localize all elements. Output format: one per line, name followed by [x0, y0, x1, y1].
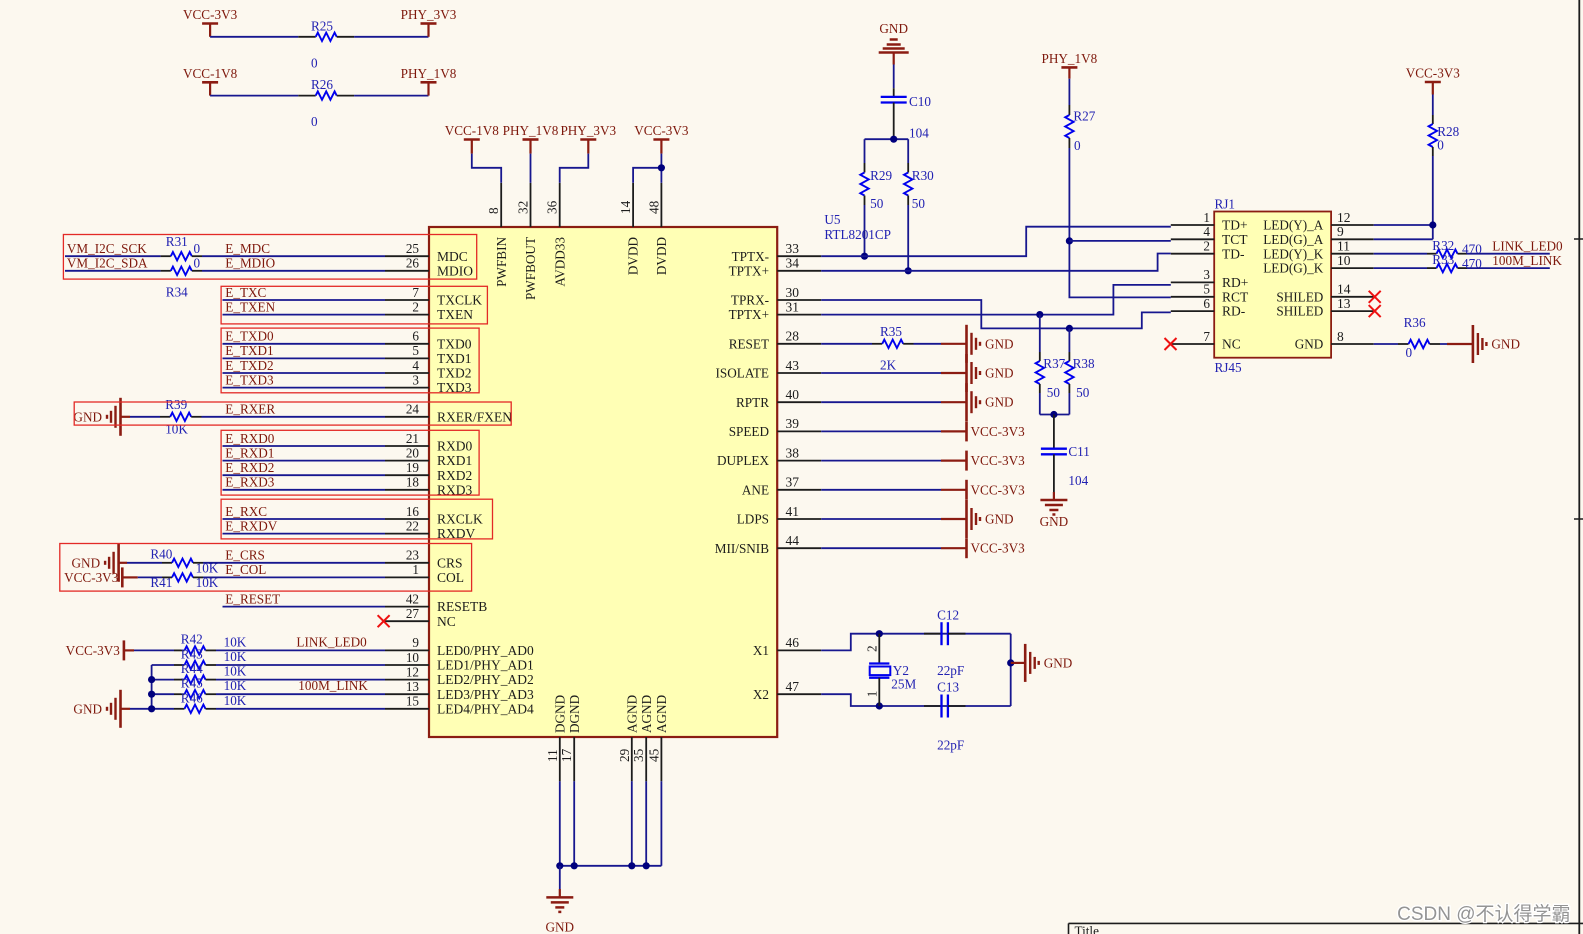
junction — [556, 862, 563, 869]
svg-text:R43: R43 — [181, 647, 203, 662]
net LINK_LED0 — [216, 649, 385, 651]
svg-text:24: 24 — [406, 402, 420, 417]
resistor R26 — [298, 95, 315, 97]
ground GND (CRS pulldown) — [119, 562, 127, 564]
svg-text:TD-: TD- — [1222, 246, 1245, 261]
wire — [1068, 79, 1070, 105]
svg-text:CSDN @不认得学霸: CSDN @不认得学霸 — [1397, 903, 1570, 925]
svg-text:34: 34 — [786, 256, 800, 271]
pin 11 DGND (bottom) — [559, 737, 561, 781]
wire — [864, 205, 866, 256]
pin 37 ANE (right) — [777, 489, 821, 491]
svg-text:21: 21 — [406, 431, 419, 446]
svg-text:2: 2 — [412, 299, 419, 314]
resistor R27 0 — [1068, 105, 1070, 115]
svg-text:43: 43 — [786, 358, 800, 373]
svg-text:RESETB: RESETB — [437, 599, 487, 614]
svg-text:104: 104 — [1068, 473, 1088, 488]
pin 25 MDC (left) — [385, 255, 429, 257]
svg-text:LED1/PHY_AD1: LED1/PHY_AD1 — [437, 658, 534, 673]
wire PHY_1V8 to RCT — [1069, 148, 1170, 297]
svg-text:E_MDC: E_MDC — [225, 241, 270, 256]
svg-text:LED(Y)_A: LED(Y)_A — [1263, 218, 1324, 233]
svg-text:1: 1 — [864, 691, 879, 698]
wire R28 to LED anodes — [1432, 156, 1434, 239]
pin 6 TXD0 (left) — [385, 343, 429, 345]
wire X1 to crystal — [821, 634, 879, 651]
resistor R32 470 — [1427, 253, 1437, 255]
svg-text:C10: C10 — [909, 94, 931, 109]
capacitor C12 22pF — [924, 633, 942, 635]
svg-text:10K: 10K — [224, 649, 247, 664]
svg-text:10K: 10K — [165, 422, 188, 437]
svg-text:SHILED: SHILED — [1276, 304, 1323, 319]
svg-text:R30: R30 — [912, 168, 934, 183]
pin 28 RESET (right) — [777, 343, 821, 345]
junction — [1066, 325, 1073, 332]
junction — [876, 630, 883, 637]
net E_RXD0 — [223, 445, 386, 447]
ground GND (RXER pulldown) — [121, 416, 131, 418]
wire — [216, 708, 385, 710]
svg-text:GND: GND — [985, 395, 1014, 410]
net E_TXD2 — [223, 372, 386, 374]
svg-text:VCC-3V3: VCC-3V3 — [64, 570, 119, 585]
net E_COL wire — [203, 576, 385, 578]
svg-text:PWFBIN: PWFBIN — [494, 237, 509, 287]
pin 32 PWFBOUT (top) — [530, 183, 532, 227]
svg-text:4: 4 — [1203, 224, 1210, 239]
connector RJ1 RJ45 body — [1214, 212, 1331, 358]
resistor R45 10K — [174, 693, 185, 695]
svg-text:VCC-3V3: VCC-3V3 — [971, 541, 1026, 556]
svg-text:50: 50 — [1047, 385, 1061, 400]
svg-text:RXD0: RXD0 — [437, 439, 473, 454]
svg-text:LED(G)_K: LED(G)_K — [1263, 261, 1324, 276]
wire TPRX- to RD- — [821, 300, 1171, 328]
crystal Y2 25M — [878, 634, 880, 664]
wire — [1440, 343, 1473, 345]
svg-text:100M_LINK: 100M_LINK — [298, 678, 368, 693]
svg-text:VCC-3V3: VCC-3V3 — [971, 453, 1026, 468]
pin 6 RD- (RJ1 left) — [1171, 310, 1214, 312]
svg-text:R39: R39 — [165, 397, 187, 412]
ground GND (C11) — [1053, 492, 1055, 500]
svg-text:PHY_3V3: PHY_3V3 — [401, 7, 457, 22]
svg-text:E_TXD3: E_TXD3 — [225, 372, 274, 387]
wire — [1039, 393, 1041, 415]
svg-text:27: 27 — [406, 606, 420, 621]
svg-text:GND: GND — [1040, 514, 1069, 529]
svg-text:GND: GND — [985, 366, 1014, 381]
wire pin12 row — [1374, 224, 1433, 226]
svg-text:C11: C11 — [1068, 444, 1090, 459]
net E_MDC wire — [202, 255, 385, 257]
svg-text:100M_LINK: 100M_LINK — [1492, 253, 1562, 268]
junction — [1429, 221, 1436, 228]
svg-text:R40: R40 — [150, 546, 172, 561]
svg-text:22pF: 22pF — [937, 663, 964, 678]
resistor R43 10K — [174, 664, 185, 666]
wire — [821, 547, 941, 549]
svg-text:E_RXDV: E_RXDV — [225, 518, 277, 533]
wire — [821, 489, 941, 491]
svg-text:13: 13 — [1337, 296, 1351, 311]
pin 2 TXEN (left) — [385, 314, 429, 316]
resistor R31 — [161, 255, 171, 257]
wire — [127, 562, 162, 564]
wire — [472, 154, 501, 183]
wire — [1374, 343, 1398, 345]
power VCC-3V3 — [941, 430, 967, 432]
svg-text:SPEED: SPEED — [729, 424, 769, 439]
wire — [865, 138, 909, 140]
wire — [821, 460, 941, 462]
svg-text:VCC-1V8: VCC-1V8 — [183, 66, 238, 81]
svg-text:29: 29 — [617, 748, 632, 762]
svg-text:RJ45: RJ45 — [1215, 360, 1243, 375]
resistor R36 0 — [1398, 343, 1409, 345]
svg-text:13: 13 — [406, 679, 420, 694]
ground GND (bottom) — [559, 889, 561, 897]
svg-text:9: 9 — [412, 635, 419, 650]
svg-text:R27: R27 — [1073, 109, 1095, 124]
svg-text:10K: 10K — [224, 678, 247, 693]
svg-text:NC: NC — [437, 614, 456, 629]
wire — [821, 401, 941, 403]
svg-text:GND: GND — [72, 555, 101, 570]
wire — [130, 708, 174, 710]
pin 48 DVDD (top) — [660, 183, 662, 227]
wire TPTX+ to TD- — [821, 254, 1171, 271]
net E_RXD1 — [223, 460, 386, 462]
svg-text:GND: GND — [879, 21, 908, 36]
net LINK_LED0 — [1467, 253, 1550, 255]
svg-text:E_RXD1: E_RXD1 — [225, 445, 274, 460]
resistor R40 10K — [162, 562, 172, 564]
resistor R42 10K — [174, 649, 185, 651]
junction — [148, 705, 155, 712]
junction — [571, 862, 578, 869]
svg-text:VCC-3V3: VCC-3V3 — [183, 7, 238, 22]
svg-text:48: 48 — [646, 200, 661, 214]
wire — [210, 36, 298, 38]
svg-text:1: 1 — [412, 562, 419, 577]
svg-text:0: 0 — [311, 56, 318, 71]
svg-text:LINK_LED0: LINK_LED0 — [296, 634, 367, 649]
svg-text:0: 0 — [1406, 345, 1413, 360]
svg-text:LED(G)_A: LED(G)_A — [1263, 232, 1324, 247]
svg-text:AGND: AGND — [624, 695, 639, 733]
svg-text:RXER/FXEN: RXER/FXEN — [437, 409, 512, 424]
svg-text:7: 7 — [412, 285, 419, 300]
svg-text:VCC-3V3: VCC-3V3 — [634, 123, 689, 138]
svg-text:ISOLATE: ISOLATE — [716, 366, 769, 381]
no-connect X (RJ1 pin 13) — [1369, 305, 1381, 317]
svg-text:25M: 25M — [891, 677, 916, 692]
svg-text:104: 104 — [909, 126, 929, 141]
resistor R34 — [161, 270, 171, 272]
pin 42 RESETB (left) — [385, 606, 429, 608]
wire top rail — [879, 633, 1010, 635]
svg-text:R45: R45 — [181, 676, 203, 691]
resistor R46 10K — [174, 708, 185, 710]
junction — [1036, 311, 1043, 318]
svg-text:GND: GND — [985, 336, 1014, 351]
wire — [821, 518, 941, 520]
svg-text:AGND: AGND — [639, 695, 654, 733]
svg-text:38: 38 — [786, 445, 800, 460]
pin 11 LED(Y)_K (RJ1 right) — [1331, 253, 1374, 255]
svg-text:R25: R25 — [311, 19, 333, 34]
pin 29 AGND (bottom) — [631, 737, 633, 781]
svg-text:RD+: RD+ — [1222, 275, 1248, 290]
svg-text:X1: X1 — [753, 643, 769, 658]
svg-text:36: 36 — [545, 200, 560, 214]
pin 44 MII/SNIB (right) — [777, 547, 821, 549]
svg-text:8: 8 — [1337, 329, 1344, 344]
svg-text:40: 40 — [786, 387, 800, 402]
junction — [148, 691, 155, 698]
svg-text:PHY_1V8: PHY_1V8 — [401, 66, 457, 81]
svg-text:25: 25 — [406, 241, 420, 256]
svg-text:46: 46 — [786, 635, 800, 650]
svg-text:TCT: TCT — [1222, 232, 1248, 247]
svg-text:E_RXER: E_RXER — [225, 402, 275, 417]
pin 3 RD+ (RJ1 left) — [1171, 281, 1214, 283]
capacitor C10 104 — [893, 88, 895, 97]
pin 34 TPTX+ (right) — [777, 270, 821, 272]
pin 1 TD+ (RJ1 left) — [1171, 224, 1214, 226]
pin 24 RXER/FXEN (left) — [385, 416, 429, 418]
svg-text:TXD1: TXD1 — [437, 351, 472, 366]
svg-text:RCT: RCT — [1222, 289, 1249, 304]
svg-text:2: 2 — [1203, 239, 1210, 254]
ground GND — [941, 518, 967, 520]
svg-text:PHY_1V8: PHY_1V8 — [1042, 51, 1098, 66]
ground GND (LED4 row) — [121, 708, 131, 710]
svg-text:5: 5 — [412, 343, 419, 358]
svg-text:E_TXD0: E_TXD0 — [225, 329, 274, 344]
svg-text:47: 47 — [786, 679, 800, 694]
svg-text:37: 37 — [786, 475, 800, 490]
svg-text:19: 19 — [406, 460, 420, 475]
svg-text:32: 32 — [516, 201, 531, 214]
svg-text:10K: 10K — [224, 634, 247, 649]
wire — [559, 866, 561, 889]
svg-text:VM_I2C_SDA: VM_I2C_SDA — [67, 256, 148, 271]
svg-text:LED2/PHY_AD2: LED2/PHY_AD2 — [437, 672, 534, 687]
net E_RXER wire — [202, 416, 386, 418]
junction — [905, 267, 912, 274]
pin 3 TXD3 (left) — [385, 387, 429, 389]
pin 20 RXD1 (left) — [385, 460, 429, 462]
svg-text:R38: R38 — [1073, 356, 1095, 371]
svg-text:44: 44 — [786, 533, 800, 548]
wire TCT branch — [1069, 240, 1170, 242]
net 100M_LINK — [1467, 267, 1550, 269]
svg-text:VCC-3V3: VCC-3V3 — [66, 643, 121, 658]
pin 5 TXD1 (left) — [385, 357, 429, 359]
svg-text:VCC-3V3: VCC-3V3 — [1406, 66, 1461, 81]
svg-text:GND: GND — [985, 512, 1014, 527]
svg-text:R36: R36 — [1404, 315, 1426, 330]
svg-text:LINK_LED0: LINK_LED0 — [1492, 239, 1563, 254]
svg-text:E_RXD3: E_RXD3 — [225, 475, 274, 490]
pin 13 LED3/PHY_AD3 (left) — [385, 693, 429, 695]
svg-text:11: 11 — [545, 749, 560, 762]
svg-text:AGND: AGND — [654, 695, 669, 733]
resistor R39 10K — [160, 416, 170, 418]
svg-text:TXD0: TXD0 — [437, 336, 472, 351]
svg-text:TXEN: TXEN — [437, 307, 473, 322]
svg-text:R37: R37 — [1043, 356, 1065, 371]
junction — [1066, 237, 1073, 244]
svg-text:TPRX-: TPRX- — [731, 293, 769, 308]
svg-text:R35: R35 — [880, 324, 902, 339]
net E_TXD1 — [223, 357, 386, 359]
svg-text:4: 4 — [412, 358, 419, 373]
junction — [1007, 659, 1014, 666]
svg-text:RESET: RESET — [729, 336, 769, 351]
svg-text:E_TXD1: E_TXD1 — [225, 343, 273, 358]
pin 23 CRS (left) — [385, 562, 429, 564]
capacitor C11 104 — [1053, 415, 1055, 449]
power VCC-3V3 (LED0 row) — [124, 649, 134, 651]
svg-text:0: 0 — [194, 256, 201, 271]
resistor R44 10K — [174, 679, 185, 681]
pin 13 SHILED (RJ1 right) — [1331, 310, 1374, 312]
net E_RESET — [223, 606, 386, 608]
pin 30 TPRX- (right) — [777, 299, 821, 301]
wire pin11 row — [1374, 253, 1427, 255]
svg-text:TXCLK: TXCLK — [437, 293, 482, 308]
power VCC-3V3 — [941, 489, 967, 491]
svg-text:C12: C12 — [937, 607, 959, 622]
net E_TXC — [223, 299, 386, 301]
svg-text:9: 9 — [1337, 224, 1344, 239]
power VCC-3V3 — [941, 547, 967, 549]
svg-text:12: 12 — [406, 664, 419, 679]
junction — [861, 253, 868, 260]
highlight box CRS/COL — [60, 544, 472, 592]
pin 1 COL (left) — [385, 576, 429, 578]
svg-text:E_MDIO: E_MDIO — [225, 256, 275, 271]
capacitor C13 22pF — [924, 705, 942, 707]
svg-text:26: 26 — [406, 256, 420, 271]
svg-text:6: 6 — [412, 329, 419, 344]
svg-text:RJ1: RJ1 — [1215, 197, 1236, 212]
svg-text:GND: GND — [546, 919, 575, 934]
pin 2 TD- (RJ1 left) — [1171, 253, 1214, 255]
highlight box RXC/RXDV — [221, 499, 492, 539]
svg-text:E_RXD2: E_RXD2 — [225, 460, 274, 475]
svg-text:VCC-3V3: VCC-3V3 — [971, 482, 1026, 497]
svg-text:C13: C13 — [937, 680, 959, 695]
svg-text:MDC: MDC — [437, 249, 468, 264]
ground GND — [941, 372, 967, 374]
svg-text:R44: R44 — [181, 661, 203, 676]
svg-text:45: 45 — [646, 748, 661, 762]
wire — [914, 343, 942, 345]
wire — [216, 679, 385, 681]
pin 10 LED1/PHY_AD1 (left) — [385, 664, 429, 666]
net E_RXD2 — [223, 474, 386, 476]
pin 38 DUPLEX (right) — [777, 460, 821, 462]
svg-text:PHY_1V8: PHY_1V8 — [503, 123, 559, 138]
title block — [1069, 922, 1583, 924]
svg-text:PWFBOUT: PWFBOUT — [523, 237, 538, 300]
svg-text:1: 1 — [1203, 210, 1210, 225]
wire — [130, 416, 160, 418]
sheet border — [1578, 0, 1580, 934]
no-connect X (pin 27) — [378, 615, 390, 627]
svg-text:3: 3 — [1203, 267, 1210, 282]
svg-text:GND: GND — [1491, 337, 1520, 352]
wire — [138, 576, 162, 578]
svg-text:RXD1: RXD1 — [437, 453, 472, 468]
ground GND (crystal) — [1011, 662, 1025, 664]
svg-text:E_TXD2: E_TXD2 — [225, 358, 273, 373]
svg-text:RPTR: RPTR — [736, 395, 769, 410]
svg-text:CRS: CRS — [437, 555, 463, 570]
svg-text:0: 0 — [194, 241, 201, 256]
svg-text:E_RESET: E_RESET — [225, 591, 280, 606]
svg-text:6: 6 — [1203, 296, 1210, 311]
svg-text:31: 31 — [786, 299, 800, 314]
resistor R28 0 — [1432, 115, 1434, 124]
svg-text:RXD2: RXD2 — [437, 468, 472, 483]
pin 26 MDIO (left) — [385, 270, 429, 272]
wire — [354, 36, 428, 38]
svg-text:35: 35 — [631, 748, 646, 762]
svg-text:E_TXC: E_TXC — [225, 285, 266, 300]
junction — [643, 862, 650, 869]
svg-text:ANE: ANE — [742, 482, 769, 497]
IC U5 RTL8201CP body — [429, 227, 777, 737]
wire — [354, 95, 428, 97]
pin 12 LED(Y)_A (RJ1 right) — [1331, 224, 1374, 226]
pin 7 NC (RJ1 left) — [1171, 343, 1214, 345]
wire pin9 row — [1374, 238, 1433, 240]
wire — [210, 95, 298, 97]
svg-text:42: 42 — [406, 591, 419, 606]
svg-text:0: 0 — [311, 114, 318, 129]
ground GND (RJ1 shield) — [1447, 343, 1473, 345]
net VM_I2C_SCK — [65, 255, 161, 257]
highlight box TXD0-TXD3 — [221, 328, 479, 393]
svg-text:22: 22 — [406, 518, 419, 533]
svg-text:DGND: DGND — [552, 695, 567, 733]
svg-text:E_RXD0: E_RXD0 — [225, 431, 274, 446]
svg-text:RD-: RD- — [1222, 304, 1246, 319]
svg-text:15: 15 — [406, 694, 420, 709]
wire — [1432, 95, 1434, 116]
svg-text:10: 10 — [406, 650, 420, 665]
wire — [560, 154, 589, 183]
svg-text:TPTX-: TPTX- — [732, 249, 769, 264]
pin 8 GND (RJ1 right) — [1331, 343, 1374, 345]
pin 14 SHILED (RJ1 right) — [1331, 296, 1374, 298]
net E_CRS wire — [203, 562, 385, 564]
pin 36 AVDD33 (top) — [559, 183, 561, 227]
svg-text:LED(Y)_K: LED(Y)_K — [1263, 246, 1324, 261]
no-connect X (RJ1 pin 7) — [1165, 338, 1177, 350]
svg-text:E_TXEN: E_TXEN — [225, 299, 275, 314]
wire — [216, 664, 385, 666]
junction — [148, 676, 155, 683]
pin 9 LED0/PHY_AD0 (left) — [385, 649, 429, 651]
